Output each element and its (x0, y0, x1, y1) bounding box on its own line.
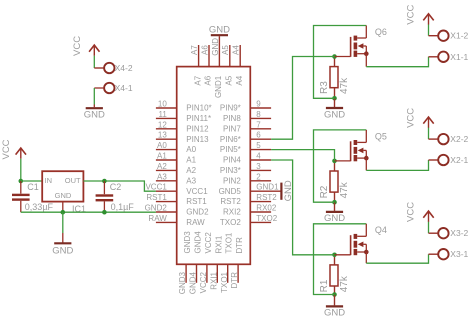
node OUT/C2 junction (102, 179, 107, 184)
label R3 (319, 81, 330, 94)
svg-text:0,1µF: 0,1µF (111, 202, 135, 212)
ground below X4-1 (84, 108, 105, 120)
svg-text:A0: A0 (157, 141, 167, 150)
svg-text:GND: GND (52, 246, 73, 257)
node GND rail / IC1 GND (61, 210, 66, 215)
svg-text:RAW: RAW (186, 218, 205, 227)
svg-text:A1: A1 (186, 156, 196, 165)
label R1 (319, 279, 330, 292)
svg-text:X2-2: X2-2 (450, 134, 468, 144)
IC U1 body (Arduino Pro Mini) (177, 67, 251, 265)
ground above IC (209, 24, 230, 45)
svg-text:IN: IN (45, 176, 53, 185)
svg-text:47k: 47k (339, 77, 350, 94)
svg-text:GND: GND (84, 109, 105, 120)
voltage regulator IC1 (42, 171, 83, 212)
svg-text:X3-2: X3-2 (450, 228, 468, 238)
resistor R3 (47k) (330, 57, 338, 99)
node R3 bottom junction (332, 96, 337, 101)
svg-text:TXO2: TXO2 (256, 214, 277, 223)
svg-text:TXO2: TXO2 (220, 218, 241, 227)
svg-text:DTR: DTR (235, 237, 244, 254)
svg-text:GND1: GND1 (256, 183, 279, 192)
node gate junction Q6 (332, 54, 337, 59)
svg-text:6: 6 (256, 131, 261, 140)
wire source net Q4 (366, 252, 438, 263)
connector pin X3-2 (438, 228, 468, 238)
node input junction (VCC/C1/IN) (19, 179, 24, 184)
svg-text:X1-1: X1-1 (450, 52, 468, 62)
resistor R2 (47k) (330, 161, 338, 202)
svg-text:GND1: GND1 (214, 75, 223, 98)
svg-text:RST2: RST2 (220, 197, 241, 206)
ground below IC1 (52, 212, 73, 256)
svg-text:GND4: GND4 (189, 271, 198, 294)
svg-text:GND: GND (55, 191, 72, 200)
svg-text:GND: GND (211, 38, 220, 56)
wire drain net Q6 (314, 26, 367, 99)
transistor Q5 (351, 131, 387, 161)
svg-text:RST2: RST2 (256, 193, 277, 202)
wire gate net Q6 (271, 57, 351, 140)
svg-text:A2: A2 (157, 162, 167, 171)
svg-text:GND2: GND2 (145, 204, 168, 213)
svg-text:A3: A3 (186, 176, 196, 185)
svg-text:GND2: GND2 (186, 208, 209, 217)
wire drain net Q5 (314, 130, 367, 202)
value 0,1uF (111, 202, 135, 212)
resistor R1 (47k) (330, 255, 338, 295)
svg-text:10: 10 (158, 100, 167, 109)
svg-text:GND3: GND3 (178, 271, 187, 294)
svg-text:PIN13: PIN13 (186, 135, 209, 144)
connector pin X4-2 (104, 63, 133, 73)
svg-text:A5: A5 (221, 45, 230, 55)
svg-text:RXI1: RXI1 (214, 235, 223, 253)
svg-text:A4: A4 (235, 75, 244, 85)
svg-text:GND5: GND5 (219, 187, 242, 196)
svg-text:GND3: GND3 (183, 231, 192, 254)
svg-text:Q6: Q6 (375, 27, 387, 37)
svg-text:PIN8: PIN8 (223, 114, 241, 123)
svg-text:Q4: Q4 (375, 225, 387, 235)
svg-text:47k: 47k (339, 181, 350, 198)
svg-text:4: 4 (256, 152, 261, 161)
power flag VCC (X4) (72, 36, 100, 56)
svg-text:C2: C2 (110, 182, 122, 192)
svg-text:2: 2 (256, 172, 261, 181)
wire gate net Q5 (271, 150, 351, 161)
svg-text:5: 5 (256, 141, 261, 150)
label C1 (27, 182, 39, 192)
svg-text:PIN10*: PIN10* (186, 104, 211, 113)
wire VCC to X4-2 (94, 56, 104, 68)
svg-text:VCC2: VCC2 (204, 232, 213, 254)
svg-text:A5: A5 (225, 75, 234, 85)
label R2 (319, 185, 330, 198)
transistor Q4 (351, 225, 387, 255)
power flag VCC (X1) (406, 5, 434, 25)
IC top pins with labels (190, 38, 244, 98)
svg-text:GND: GND (324, 109, 345, 120)
wire source net Q6 (366, 54, 438, 67)
svg-text:R3: R3 (319, 81, 330, 94)
svg-text:A1: A1 (157, 152, 167, 161)
svg-text:VCC: VCC (406, 108, 417, 128)
svg-text:GND: GND (324, 307, 345, 318)
label C2 (110, 182, 122, 192)
svg-text:9: 9 (256, 100, 261, 109)
svg-text:47k: 47k (339, 275, 350, 292)
svg-text:8: 8 (256, 110, 261, 119)
svg-text:X2-1: X2-1 (450, 155, 468, 165)
svg-text:VCC2: VCC2 (199, 271, 208, 293)
value 47k R3 (339, 77, 350, 94)
value 47k R1 (339, 275, 350, 292)
svg-text:PIN2: PIN2 (223, 176, 241, 185)
svg-text:13: 13 (158, 131, 167, 140)
connector pin X1-1 (438, 52, 468, 62)
connector pin X2-1 (438, 155, 468, 165)
connector pin X3-1 (438, 249, 468, 259)
svg-text:X4-2: X4-2 (115, 63, 133, 73)
svg-text:C1: C1 (27, 182, 39, 192)
svg-text:GND: GND (324, 213, 345, 224)
wire GND rail (21, 211, 156, 213)
svg-text:A0: A0 (186, 145, 196, 154)
svg-text:R1: R1 (319, 279, 330, 292)
svg-text:X4-1: X4-1 (115, 83, 133, 93)
wire VCC to X3-2 (429, 222, 439, 234)
svg-text:RXI2: RXI2 (223, 208, 241, 217)
ground below R2 (324, 202, 345, 224)
svg-text:A6: A6 (204, 75, 213, 85)
value 0,33uF (25, 202, 54, 212)
connector pin X1-2 (438, 31, 468, 41)
wire IN net (21, 180, 42, 182)
node gate junction Q4 (332, 253, 337, 258)
svg-text:0,33µF: 0,33µF (25, 202, 54, 212)
svg-text:A7: A7 (193, 75, 202, 85)
svg-text:PIN5*: PIN5* (220, 145, 241, 154)
svg-text:PIN6*: PIN6* (220, 135, 241, 144)
ground below R1 (324, 295, 345, 319)
capacitor C2 (96, 181, 114, 212)
wire source net Q5 (366, 158, 438, 170)
svg-text:TXO1: TXO1 (220, 271, 229, 292)
svg-text:A4: A4 (232, 45, 241, 55)
svg-text:A6: A6 (200, 45, 209, 55)
transistor Q6 (351, 27, 387, 57)
connector pin X2-2 (438, 134, 468, 144)
svg-text:PIN7: PIN7 (223, 124, 241, 133)
IC left pins with labels (145, 100, 212, 228)
wire drain net Q4 (314, 224, 367, 295)
ground below R3 (324, 98, 345, 120)
wire gate net Q4 (271, 160, 351, 255)
wire VCC to input junction (20, 159, 22, 181)
svg-text:A7: A7 (190, 45, 199, 55)
svg-text:DTR: DTR (230, 272, 239, 289)
svg-text:RST1: RST1 (146, 193, 167, 202)
svg-text:VCC: VCC (1, 139, 12, 159)
svg-text:11: 11 (158, 110, 167, 119)
svg-text:RAW: RAW (148, 214, 167, 223)
svg-text:RXI1: RXI1 (209, 271, 218, 289)
svg-text:PIN12: PIN12 (186, 124, 209, 133)
node gate junction Q5 (332, 159, 337, 164)
svg-text:GND: GND (209, 24, 230, 35)
svg-text:3: 3 (256, 162, 261, 171)
node GND rail / C2 (102, 210, 107, 215)
svg-text:PIN11*: PIN11* (186, 114, 211, 123)
svg-text:PIN9*: PIN9* (220, 104, 241, 113)
wire VCC to X1-2 (429, 24, 439, 35)
svg-text:X1-2: X1-2 (450, 31, 468, 41)
capacitor C1 (12, 181, 30, 212)
ground at GND1 pin (rotated) (281, 180, 294, 201)
IC bottom pins with labels (178, 231, 244, 295)
wire OUT net to VCC1 (83, 181, 155, 191)
svg-text:VCC1: VCC1 (186, 187, 208, 196)
svg-text:R2: R2 (319, 185, 330, 198)
power flag VCC (X2) (406, 108, 434, 128)
svg-text:12: 12 (158, 120, 167, 129)
wire VCC to X2-2 (429, 128, 439, 140)
svg-text:X3-1: X3-1 (450, 249, 468, 259)
svg-text:VCC: VCC (72, 36, 83, 56)
wire X4-1 to ground (94, 88, 104, 107)
svg-text:RST1: RST1 (186, 197, 207, 206)
label IC1 (72, 204, 86, 214)
power flag VCC (X3) (406, 202, 434, 222)
svg-text:GND4: GND4 (194, 231, 203, 254)
svg-text:PIN4: PIN4 (223, 156, 241, 165)
svg-text:PIN3*: PIN3* (220, 166, 241, 175)
svg-text:RX02: RX02 (256, 204, 277, 213)
value 47k R2 (339, 181, 350, 198)
svg-text:Q5: Q5 (375, 131, 387, 141)
power flag VCC (regulator input) (1, 139, 26, 159)
svg-text:7: 7 (256, 120, 261, 129)
svg-text:A2: A2 (186, 166, 196, 175)
svg-text:OUT: OUT (65, 176, 81, 185)
svg-text:A3: A3 (157, 172, 167, 181)
node R1 bottom junction (332, 292, 337, 297)
svg-text:VCC1: VCC1 (145, 183, 167, 192)
svg-text:VCC: VCC (406, 202, 417, 222)
IC right pins with labels (219, 100, 281, 228)
node R2 bottom junction (332, 200, 337, 205)
svg-text:TXO1: TXO1 (225, 232, 234, 253)
connector pin X4-1 (104, 83, 133, 93)
svg-text:VCC: VCC (406, 5, 417, 25)
